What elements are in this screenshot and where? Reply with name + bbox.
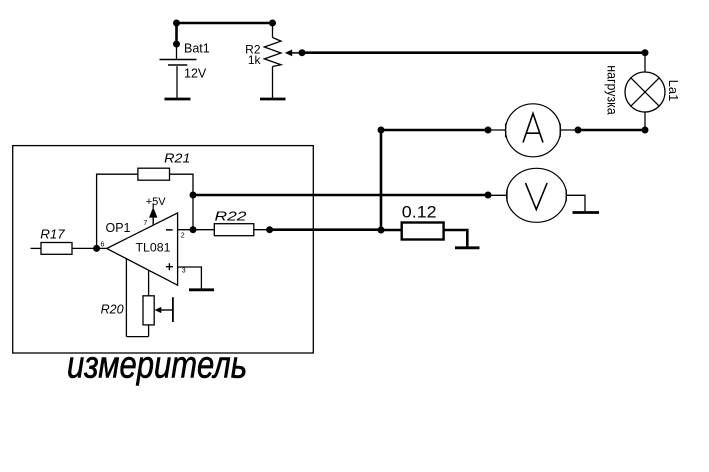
node feedback output junction (190, 192, 197, 199)
wire feedback up from output (97, 174, 138, 248)
wire R21 right down to inverting node (170, 174, 194, 230)
resistor shunt 0.12 (402, 223, 444, 240)
wire voltmeter to ground (566, 195, 585, 211)
ground shunt (455, 246, 480, 249)
svg-text:R20: R20 (101, 302, 124, 316)
wire lamp top lead (644, 53, 646, 73)
wire pin5 down (148, 270, 150, 296)
wire R22 to node (254, 229, 270, 231)
ground voltmeter (573, 211, 600, 214)
resistor R21 (138, 168, 170, 180)
box измеритель (13, 146, 314, 353)
node R2 top junction (269, 20, 276, 27)
svg-text:6: 6 (101, 241, 105, 248)
node ammeter left (485, 127, 492, 134)
ground pin3 (189, 288, 214, 291)
wire voltmeter left lead (488, 194, 507, 196)
ground battery (165, 98, 191, 101)
wire inverting input to R22 (178, 229, 215, 231)
svg-text:R22: R22 (215, 209, 247, 223)
node opamp output (93, 245, 100, 252)
wire battery minus to ground (176, 66, 178, 98)
svg-text:1k: 1k (248, 53, 262, 67)
svg-text:измеритель: измеритель (67, 345, 247, 387)
wire shunt to ground (444, 230, 468, 247)
wire shunt branch vertical (380, 130, 383, 230)
wire ammeter right lead (560, 129, 578, 131)
svg-text:7: 7 (143, 220, 147, 227)
wire battery terminal to plate (176, 44, 178, 59)
node lamp bottom corner (642, 127, 649, 134)
node battery plus junction (173, 20, 180, 27)
node voltmeter left (485, 192, 492, 199)
svg-text:R21: R21 (164, 152, 190, 166)
svg-text:TL081: TL081 (136, 241, 171, 255)
wire ammeter left lead (488, 129, 506, 131)
wire R2 top lead (272, 23, 274, 38)
wire battery top stub (175, 23, 178, 44)
resistor R22 (214, 224, 254, 236)
wire lamp to ammeter (578, 129, 645, 132)
svg-text:2: 2 (181, 233, 185, 240)
svg-text:R17: R17 (40, 227, 65, 241)
svg-text:нагрузка: нагрузка (604, 65, 620, 115)
voltmeter V (507, 168, 567, 222)
node ammeter right (575, 127, 582, 134)
node inverting input junction (190, 226, 197, 233)
ground R2 (260, 98, 286, 101)
svg-text:12V: 12V (184, 67, 207, 81)
wire pin3 to ground (178, 267, 202, 289)
ammeter A (506, 104, 561, 157)
wire pin1 down (125, 259, 127, 337)
wire output to apex (97, 247, 107, 249)
node lamp top corner (642, 49, 649, 56)
power +5V (146, 196, 167, 225)
svg-text:La1: La1 (666, 80, 681, 102)
svg-text:3: 3 (182, 268, 186, 275)
op-amp U1 TL081 (107, 213, 178, 285)
wire battery top to R2 top (177, 22, 273, 25)
wire ammeter left (381, 129, 488, 132)
node R22 output (266, 226, 273, 233)
node wiper junction (299, 49, 306, 56)
svg-text:Bat1: Bat1 (184, 42, 210, 56)
wire wiper to lamp (302, 51, 645, 54)
wire R2 bottom lead (272, 67, 274, 99)
svg-text:0.12: 0.12 (402, 203, 437, 222)
resistor R17 (31, 243, 97, 255)
potentiometer R2 zigzag (264, 38, 281, 67)
trimmer R20 (126, 296, 172, 337)
wire lamp bottom lead (644, 112, 646, 131)
battery Bat1 (160, 60, 197, 66)
node shunt branch top (378, 127, 385, 134)
wire opamp out to voltmeter (193, 194, 488, 197)
wire node to shunt resistor (381, 229, 402, 232)
R2 wiper arrow (285, 50, 302, 57)
lamp La1 (625, 72, 665, 112)
node battery terminal dot (173, 41, 180, 48)
wire R22 node to shunt (270, 228, 381, 231)
node shunt branch bottom (378, 227, 385, 234)
svg-text:OP1: OP1 (106, 221, 131, 235)
svg-text:+5V: +5V (146, 196, 167, 208)
